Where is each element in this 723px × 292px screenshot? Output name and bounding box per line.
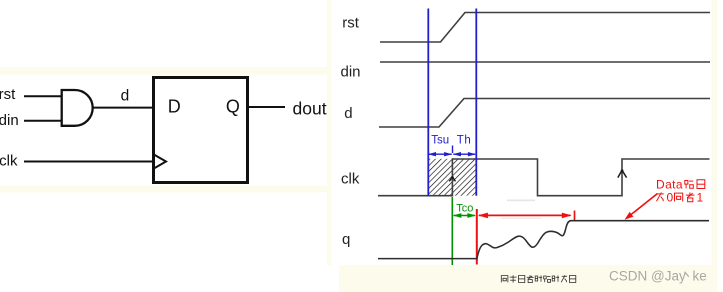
background cream right strip: [712, 0, 718, 292]
blue cursor line 1 (setup window start): [427, 9, 429, 196]
svg-text:d: d: [121, 87, 130, 104]
rst waveform: [380, 13, 710, 43]
svg-text:Tco: Tco: [456, 203, 473, 215]
svg-text:rst: rst: [342, 15, 359, 32]
metastability span arrow (red): [479, 214, 571, 216]
svg-text:dout: dout: [293, 99, 327, 119]
background cream bottom region: [339, 265, 712, 292]
wire din input: [24, 120, 63, 122]
svg-text:0: 0: [667, 191, 674, 205]
svg-text:Th: Th: [457, 135, 472, 147]
svg-text:CSDN @Jay: CSDN @Jay: [609, 269, 686, 284]
wire rst input: [24, 95, 63, 97]
q waveform with metastable wiggle: [378, 221, 709, 259]
svg-text:D: D: [168, 97, 181, 117]
D flip-flop U2: [154, 78, 248, 183]
Tco measure arrow (green): [454, 215, 476, 217]
clk waveform: [378, 159, 710, 196]
svg-text:din: din: [341, 64, 361, 81]
annotation arrow Data stable (red): [627, 194, 658, 218]
svg-text:Tsu: Tsu: [431, 135, 449, 147]
svg-text:1: 1: [697, 191, 704, 205]
wire Q output: [249, 106, 285, 108]
clk first rising edge arrowhead: [449, 177, 455, 182]
setup/hold window hatch: [429, 159, 476, 196]
d waveform: [379, 99, 710, 128]
clock input triangle: [153, 154, 166, 169]
clk second rising edge arrowhead: [618, 170, 627, 177]
blue cursor line 2 (hold window end): [475, 9, 477, 196]
background cream band below schematic: [0, 186, 331, 193]
background cream band above schematic: [0, 67, 331, 75]
svg-text:clk: clk: [341, 171, 360, 188]
Tsu measure arrow: [429, 153, 452, 155]
svg-text:clk: clk: [0, 153, 18, 170]
svg-text:rst: rst: [0, 86, 16, 103]
red end tick: [574, 211, 576, 221]
wire clk input: [24, 161, 152, 163]
svg-text:d: d: [344, 105, 352, 122]
Th measure arrow: [453, 153, 475, 155]
wire AND output to D input (net d): [92, 107, 153, 109]
background cream gap strip between images: [327, 0, 332, 265]
svg-text:din: din: [0, 112, 19, 129]
svg-text:ke: ke: [693, 269, 707, 284]
AND gate U1: [62, 90, 93, 126]
Tco cursor line (green): [451, 197, 453, 265]
svg-text:Q: Q: [226, 97, 240, 117]
din waveform: [380, 61, 710, 63]
red cursor line (clk-to-q delay): [476, 209, 478, 265]
svg-text:Data: Data: [656, 178, 683, 192]
blue center tick at clock edge: [452, 146, 454, 154]
faint watermark remnant: [507, 200, 535, 202]
svg-text:q: q: [342, 231, 350, 248]
caption pseudo CJK: [501, 275, 576, 283]
